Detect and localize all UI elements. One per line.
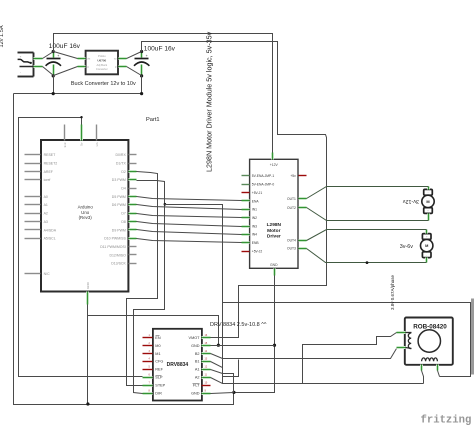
DRV8834 pin STEP label [155, 384, 165, 388]
L298N pin IN2 label [252, 216, 257, 220]
svg-text:IN3: IN3 [252, 224, 257, 228]
arduino pin RESET label [44, 153, 57, 157]
power jack J1 pin 1 stub [34, 57, 43, 60]
svg-text:SLP: SLP [155, 376, 163, 380]
svg-text:EN: EN [155, 336, 161, 340]
svg-text:12v 1.5A: 12v 1.5A [0, 25, 5, 47]
wire OUT1 to motor M1 top [307, 187, 429, 199]
svg-text:STEP: STEP [155, 384, 165, 388]
svg-text:A0: A0 [44, 195, 48, 199]
svg-text:Arduino: Arduino [78, 205, 94, 210]
DRV8834 pin A1 (pin 12) label [195, 368, 200, 372]
L298N pin +5V-J2 stub [242, 251, 250, 253]
arduino pin A3 label [44, 220, 48, 224]
capacitor C2 100uF [134, 50, 149, 78]
DRV8834 pin SLP stub [143, 376, 153, 379]
arduino pin A4/SDA stub [25, 229, 41, 231]
junction gnd corner [232, 391, 235, 394]
wire D3 to DRV DIR [134, 181, 165, 394]
label Part1 [146, 117, 160, 123]
svg-text:REF: REF [155, 368, 163, 372]
motor M1 value label [403, 198, 419, 204]
svg-text:3v3: 3v3 [63, 142, 67, 147]
L298N pin OUT4 stub [299, 239, 307, 242]
svg-text:Adj Buck: Adj Buck [96, 63, 107, 67]
arduino pin VIN label [95, 142, 99, 146]
wire C1 bottom to gnd rail [53, 76, 55, 94]
wire buck VOUT to C2 top [127, 52, 142, 59]
svg-text:-: - [426, 254, 427, 257]
L298N pin +5V-J2 label [252, 249, 263, 253]
DRV8834 pin CFG label [155, 360, 163, 364]
DRV8834 pin FLT (pin 10) label [193, 384, 201, 388]
L298N pin +5v stub [299, 175, 307, 177]
DRV8834 pin EN label [155, 336, 161, 340]
L298N U2 body [250, 159, 298, 268]
DRV8834 pin CFG stub [143, 361, 153, 363]
L298N pin IN3 label [252, 224, 257, 228]
DRV8834 pin number 11 [205, 374, 208, 377]
svg-text:D13/SCK: D13/SCK [111, 262, 126, 266]
DRV8834 pin GND (pin 15) stub [202, 344, 211, 347]
DRV8834 pin B2 (pin 14) label [195, 352, 200, 356]
L298N pin OUT2 stub [299, 206, 307, 209]
svg-text:Motor: Motor [267, 228, 280, 234]
svg-text:A2: A2 [195, 376, 200, 380]
svg-text:U6700: U6700 [97, 59, 106, 63]
svg-text:5V-ENA-JMP-0: 5V-ENA-JMP-0 [252, 183, 275, 187]
wire D5 to ENA [137, 197, 242, 201]
svg-text:D6 PWM: D6 PWM [112, 203, 126, 207]
svg-text:D0/RX: D0/RX [115, 153, 126, 157]
fritzing watermark [421, 414, 472, 426]
DRV8834 pin SLP label [155, 376, 163, 380]
wire stepper coil2 left riser [422, 371, 424, 384]
arduino pin A1 label [44, 203, 48, 207]
wire 12v rail [54, 34, 273, 153]
wire D6 to IN1 [137, 205, 242, 210]
wire stepper coil2 right link [223, 303, 471, 377]
arduino pin D6 PWM stub [129, 203, 137, 206]
arduino pin D6 PWM label [112, 203, 126, 207]
svg-text:+5V-J2: +5V-J2 [252, 249, 263, 253]
L298N pin OUT3 stub [299, 247, 307, 250]
wire 5v net [19, 118, 143, 377]
stepper coil A pin 2 stub [397, 346, 406, 349]
svg-text:Uno: Uno [81, 210, 90, 215]
junction gnd rail at C2 [140, 92, 143, 95]
arduino pin D13/SCK stub [129, 263, 137, 265]
arduino pin D4 label [121, 187, 126, 191]
L298N pin IN1 label [252, 208, 257, 212]
svg-text:GND: GND [86, 281, 90, 289]
arduino pin A4/SDA label [44, 228, 57, 232]
motor M2 (3v-6v) [421, 234, 433, 258]
svg-text:Part1: Part1 [146, 117, 160, 123]
arduino pin D11 PWM/MOSI stub [129, 246, 137, 248]
L298N pin IN1 stub [242, 208, 250, 211]
wire 10v rail [142, 42, 327, 338]
svg-text:OUT1: OUT1 [287, 197, 296, 201]
L298N pin +12V stub [271, 153, 274, 160]
DRV8834 pin REF stub [143, 369, 153, 371]
wire jack pin1 to C1 top [43, 52, 54, 59]
L298N pin OUT3 label [287, 247, 296, 251]
svg-text:DIR: DIR [155, 392, 162, 396]
arduino pin D3 PWM stub [129, 178, 137, 181]
arduino pin D5 PWM label [112, 195, 126, 199]
motor M1 top pin stub [427, 187, 430, 190]
L298N pin +5v label [290, 174, 296, 178]
power jack J1 [18, 53, 34, 77]
arduino pin A5/SCL label [44, 237, 56, 241]
arduino pin D10 PWM/SS stub [129, 237, 137, 240]
motor M2 value label [400, 244, 413, 250]
svg-text:OUT3: OUT3 [287, 247, 296, 251]
arduino pin A0 stub [25, 196, 41, 198]
stepper coil A (left) [406, 333, 412, 349]
arduino pin D5 PWM stub [129, 195, 137, 198]
wire gnd left rail [14, 94, 234, 405]
svg-text:D7: D7 [121, 212, 126, 216]
arduino pin D8 stub [129, 220, 137, 223]
arduino pin 3V3 stub [64, 125, 66, 141]
svg-text:IN4: IN4 [252, 233, 257, 237]
svg-text:OUT2: OUT2 [287, 206, 296, 210]
DRV8834 value label [210, 322, 267, 328]
svg-text:CFG: CFG [155, 360, 163, 364]
svg-text:D4: D4 [121, 187, 126, 191]
motor M1 (3v-12v) [422, 189, 434, 213]
DRV8834 pin DIR stub [143, 392, 153, 395]
junction OUT3 wire [366, 261, 369, 264]
arduino pin N/C label [44, 272, 51, 276]
stepper motor M3 ROB-08420 body [405, 318, 453, 365]
svg-text:3.8v 0.67A/phase: 3.8v 0.67A/phase [390, 274, 395, 310]
arduino pin ioref label [44, 178, 51, 182]
svg-text:VMOT: VMOT [189, 336, 201, 340]
wire D2 to DRV STEP [127, 172, 158, 386]
DRV8834 pin M1 label [155, 352, 160, 356]
svg-text:(Rev3): (Rev3) [79, 215, 93, 220]
svg-text:5V-ENA-JMP-1: 5V-ENA-JMP-1 [252, 174, 275, 178]
svg-text:IN2: IN2 [252, 216, 257, 220]
arduino U1 body [41, 140, 128, 292]
wire buck GND to C2 bottom [127, 67, 142, 76]
capacitor C2 plus sign [146, 54, 148, 58]
arduino pin N/C stub [25, 273, 41, 275]
arduino pin D0/RX stub [129, 154, 137, 156]
DRV8834 pin B1 (pin 13) label [195, 360, 200, 364]
wire D10 to ENB [137, 239, 242, 243]
svg-text:D9 PWM: D9 PWM [112, 228, 126, 232]
DRV8834 pin number 12 [205, 366, 208, 369]
svg-text:M0: M0 [155, 344, 160, 348]
L298N pin 5V-ENA-JMP-1 stub [242, 175, 250, 177]
DRV8834 pin number 2 [149, 342, 151, 345]
wire OUT3 to motor M2 bottom [307, 249, 427, 263]
svg-text:5v: 5v [80, 142, 84, 146]
DRV8834 pin number 5 [149, 366, 151, 369]
L298N label (vertical) [205, 31, 214, 172]
arduino pin A0 label [44, 195, 48, 199]
svg-text:ENA: ENA [252, 199, 260, 203]
DRV8834 pin number 4 [149, 358, 151, 361]
arduino pin VIN stub [96, 125, 98, 141]
DRV8834 pin EN stub [143, 337, 153, 339]
L298N pin IN3 stub [242, 225, 250, 228]
svg-text:ENB: ENB [252, 241, 260, 245]
DRV8834 pin GND (pin 9) stub [202, 392, 211, 395]
svg-text:A3: A3 [44, 220, 48, 224]
DRV8834 pin number 14 [205, 350, 208, 353]
svg-text:fritzing: fritzing [421, 414, 472, 426]
motor M1 bottom pin stub [427, 214, 430, 221]
arduino pin D3 PWM label [112, 178, 126, 182]
DRV8834 pin number 6 [149, 374, 151, 377]
wire arduino gnd to drv gnd [88, 316, 219, 346]
arduino pin A2 label [44, 212, 48, 216]
DRV8834 pin number 8 [149, 390, 151, 393]
DRV8834 pin number 7 [149, 382, 151, 385]
svg-text:A5/SCL: A5/SCL [44, 237, 56, 241]
arduino pin D0/RX label [115, 153, 126, 157]
junction L298N gnd [273, 344, 276, 347]
motor M2 bottom pin stub [425, 258, 428, 263]
svg-text:Buck Converter 12v to 10v: Buck Converter 12v to 10v [71, 81, 136, 87]
capacitor C1 plus sign [57, 54, 59, 58]
svg-text:+5V-J1: +5V-J1 [252, 191, 263, 195]
DRV8834 pin number 1 [149, 334, 151, 337]
wire D7 to IN2 [137, 214, 242, 218]
arduino pin 5V stub [80, 125, 83, 141]
wire arduino gnd down [87, 305, 89, 405]
DRV8834 pin number 13 [205, 358, 208, 361]
L298N pin 5V-ENA-JMP-0 label [252, 183, 275, 187]
L298N pin 5V-ENA-JMP-0 stub [242, 184, 250, 186]
arduino pin A2 stub [25, 213, 41, 215]
L298N pin OUT4 label [287, 239, 296, 243]
svg-text:GND: GND [270, 263, 278, 267]
cropped wire (right edge bar) [471, 299, 474, 375]
arduino pin D7 stub [129, 212, 137, 215]
svg-text:+: + [20, 54, 22, 58]
DRV8834 pin B1 (pin 13) stub [202, 360, 211, 363]
svg-text:+: + [146, 54, 148, 58]
arduino pin D10 PWM/SS label [104, 237, 126, 241]
arduino pin D13/SCK label [111, 262, 126, 266]
L298N pin IN2 stub [242, 216, 250, 219]
wire DRV B1 detour [211, 360, 239, 377]
arduino pin D12/MISO label [109, 253, 126, 257]
stepper coil A pin 1 stub [397, 331, 406, 334]
capacitor C1 100uF [46, 50, 61, 78]
svg-text:DRV8834: DRV8834 [167, 362, 189, 368]
svg-text:M: M [425, 243, 428, 248]
DRV8834 pin number 16 [205, 334, 208, 337]
stepper coil B pin 2 stub [436, 365, 439, 371]
junction drv gnd wire [217, 344, 220, 347]
svg-text:+: + [57, 54, 59, 58]
L298N pin ENB label [252, 241, 260, 245]
svg-text:M: M [426, 199, 429, 204]
arduino pin GND label [86, 281, 90, 289]
arduino pin D1/TX label [116, 161, 127, 165]
DRV8834 pin number 3 [149, 350, 151, 353]
power jack J1 pin 2 stub [34, 65, 43, 68]
svg-text:-: - [20, 70, 21, 74]
svg-text:D8: D8 [121, 220, 126, 224]
DRV8834 pin VMOT (pin 16) label [189, 336, 201, 340]
arduino pin RESET2 label [44, 161, 58, 165]
L298N pin 5V-ENA-JMP-1 label [252, 174, 275, 178]
svg-text:D3 PWM: D3 PWM [112, 178, 126, 182]
wire D9 to IN4 [137, 230, 242, 235]
arduino pin RESET2 stub [25, 163, 41, 165]
wire DRV B2 to stepper coil1 bottom [211, 349, 397, 359]
L298N pin +5V-J1 stub [242, 192, 250, 194]
DRV8834 pin B2 (pin 14) stub [202, 352, 211, 355]
svg-text:Converter: Converter [96, 67, 108, 71]
arduino pin RESET stub [25, 154, 41, 156]
L298N pin ENA stub [242, 199, 250, 202]
svg-text:IN1: IN1 [252, 208, 257, 212]
svg-text:+12V: +12V [270, 163, 279, 167]
svg-text:B1: B1 [195, 360, 200, 364]
L298N pin IN4 label [252, 233, 257, 237]
arduino pin D11 PWM/MOSI label [100, 245, 126, 249]
capacitor C2 value label [144, 45, 176, 52]
DRV8834 pin FLT (pin 10) stub [202, 385, 211, 387]
L298N pin OUT2 label [287, 206, 296, 210]
svg-text:-: - [428, 191, 429, 194]
wire DRV GND2 to gnd corner [211, 393, 234, 394]
wire stepper coil1 top link [303, 333, 397, 384]
junction 5v corner [80, 116, 82, 118]
DRV8834 pin A2 (pin 11) stub [202, 376, 211, 379]
wire DRV A2 to stepper coil2 left [211, 378, 424, 384]
wire DRV GND to gnd net [211, 345, 275, 347]
DRV8834 pin VMOT (pin 16) stub [202, 336, 211, 339]
arduino pin 3V3 label [63, 142, 67, 147]
arduino pin D9 PWM stub [129, 228, 137, 231]
svg-text:N/C: N/C [44, 272, 51, 276]
wire C1 top to buck VIN [54, 52, 78, 59]
arduino pin A1 stub [25, 204, 41, 206]
arduino pin D9 PWM label [112, 228, 126, 232]
L298N pin GND stub [273, 269, 276, 276]
svg-text:FLT: FLT [193, 384, 200, 388]
svg-text:GND: GND [191, 344, 200, 348]
arduino pin A3 stub [25, 221, 41, 223]
svg-text:L298N: L298N [267, 222, 282, 228]
junction gnd bottom rail [86, 402, 89, 405]
svg-text:3v-12v: 3v-12v [403, 198, 419, 204]
arduino pin GND stub [86, 292, 89, 305]
motor M2 top pin stub [425, 230, 428, 234]
stepper label (vertical) [390, 274, 395, 310]
L298N pin OUT1 label [287, 197, 296, 201]
svg-text:GND: GND [191, 392, 200, 396]
arduino pin D2 stub [129, 170, 137, 173]
buck VIN stub [78, 57, 86, 60]
svg-text:DRV 8834 2.5v-10.8 ^^: DRV 8834 2.5v-10.8 ^^ [210, 322, 267, 328]
buck VOUT stub [119, 57, 127, 60]
label 12v 1.5A (left edge, rotated) [0, 25, 5, 47]
DRV8834 pin number 9 [205, 390, 207, 393]
arduino pin D4 stub [129, 188, 137, 190]
buck converter value label [71, 81, 136, 87]
arduino pin A5/SCL stub [25, 238, 41, 240]
DRV8834 pin number 10 [205, 382, 208, 385]
L298N pin ENA label [252, 199, 260, 203]
DRV8834 pin number 15 [205, 342, 208, 345]
wire stepper coil2 right riser [438, 371, 440, 377]
DRV8834 pin STEP stub [143, 384, 153, 387]
arduino pin 5V label [80, 142, 84, 146]
svg-text:A2: A2 [44, 212, 48, 216]
arduino pin ioref stub [25, 179, 41, 181]
buck converter U4 body [86, 51, 118, 75]
svg-text:ioref: ioref [44, 178, 51, 182]
arduino pin D1/TX stub [129, 163, 137, 165]
DRV8834 pin GND (pin 9) label [191, 392, 200, 396]
svg-text:Pololu: Pololu [98, 54, 106, 58]
svg-text:D1/TX: D1/TX [116, 161, 127, 165]
DRV8834 pin M1 stub [143, 353, 153, 355]
svg-text:A4/SDA: A4/SDA [44, 228, 57, 232]
wire C1 bottom to buck GND [54, 67, 78, 76]
junction gnd rail at C1 [52, 92, 55, 95]
DRV8834 pin A2 (pin 11) label [195, 376, 200, 380]
arduino pin D8 label [121, 220, 126, 224]
wire C2 bottom to gnd rail [141, 76, 143, 94]
svg-text:RESET: RESET [44, 153, 57, 157]
svg-text:A1: A1 [44, 203, 48, 207]
arduino pin AREF label [44, 170, 53, 174]
svg-text:RESET2: RESET2 [44, 161, 58, 165]
L298N pin OUT1 stub [299, 197, 307, 200]
svg-text:A1: A1 [195, 368, 200, 372]
DRV8834 pin REF label [155, 368, 163, 372]
wire gnd rail top [14, 93, 142, 95]
DRV8834 pin M0 stub [143, 345, 153, 347]
svg-text:AREF: AREF [44, 170, 53, 174]
buck GND-in stub [78, 65, 86, 68]
svg-text:D2: D2 [121, 170, 126, 174]
svg-text:B2: B2 [195, 352, 200, 356]
arduino pin D2 label [121, 170, 126, 174]
junction D3 branch [164, 203, 167, 206]
wire D3 branch to stepper net [165, 205, 223, 384]
DRV8834 pin M0 label [155, 344, 160, 348]
wire DRV A1 hook [211, 370, 234, 393]
svg-text:D10 PWM/SS: D10 PWM/SS [104, 237, 126, 241]
DRV8834 pin DIR label [155, 392, 162, 396]
wire OUT2 to motor M1 bottom [307, 208, 429, 221]
buck GND-out stub [119, 65, 127, 68]
L298N pin ENB stub [242, 241, 250, 244]
DRV8834 pin A1 (pin 12) stub [202, 368, 211, 371]
arduino pin D12/MISO stub [129, 254, 137, 256]
stepper coil B pin 1 stub [420, 365, 423, 371]
wire OUT4 to motor M2 top [307, 230, 427, 241]
capacitor C1 value label [49, 43, 81, 50]
L298N pin IN4 stub [242, 233, 250, 236]
stepper coil B (bottom) [422, 358, 438, 361]
arduino pin AREF stub [25, 171, 41, 173]
svg-text:+5v: +5v [290, 174, 296, 178]
